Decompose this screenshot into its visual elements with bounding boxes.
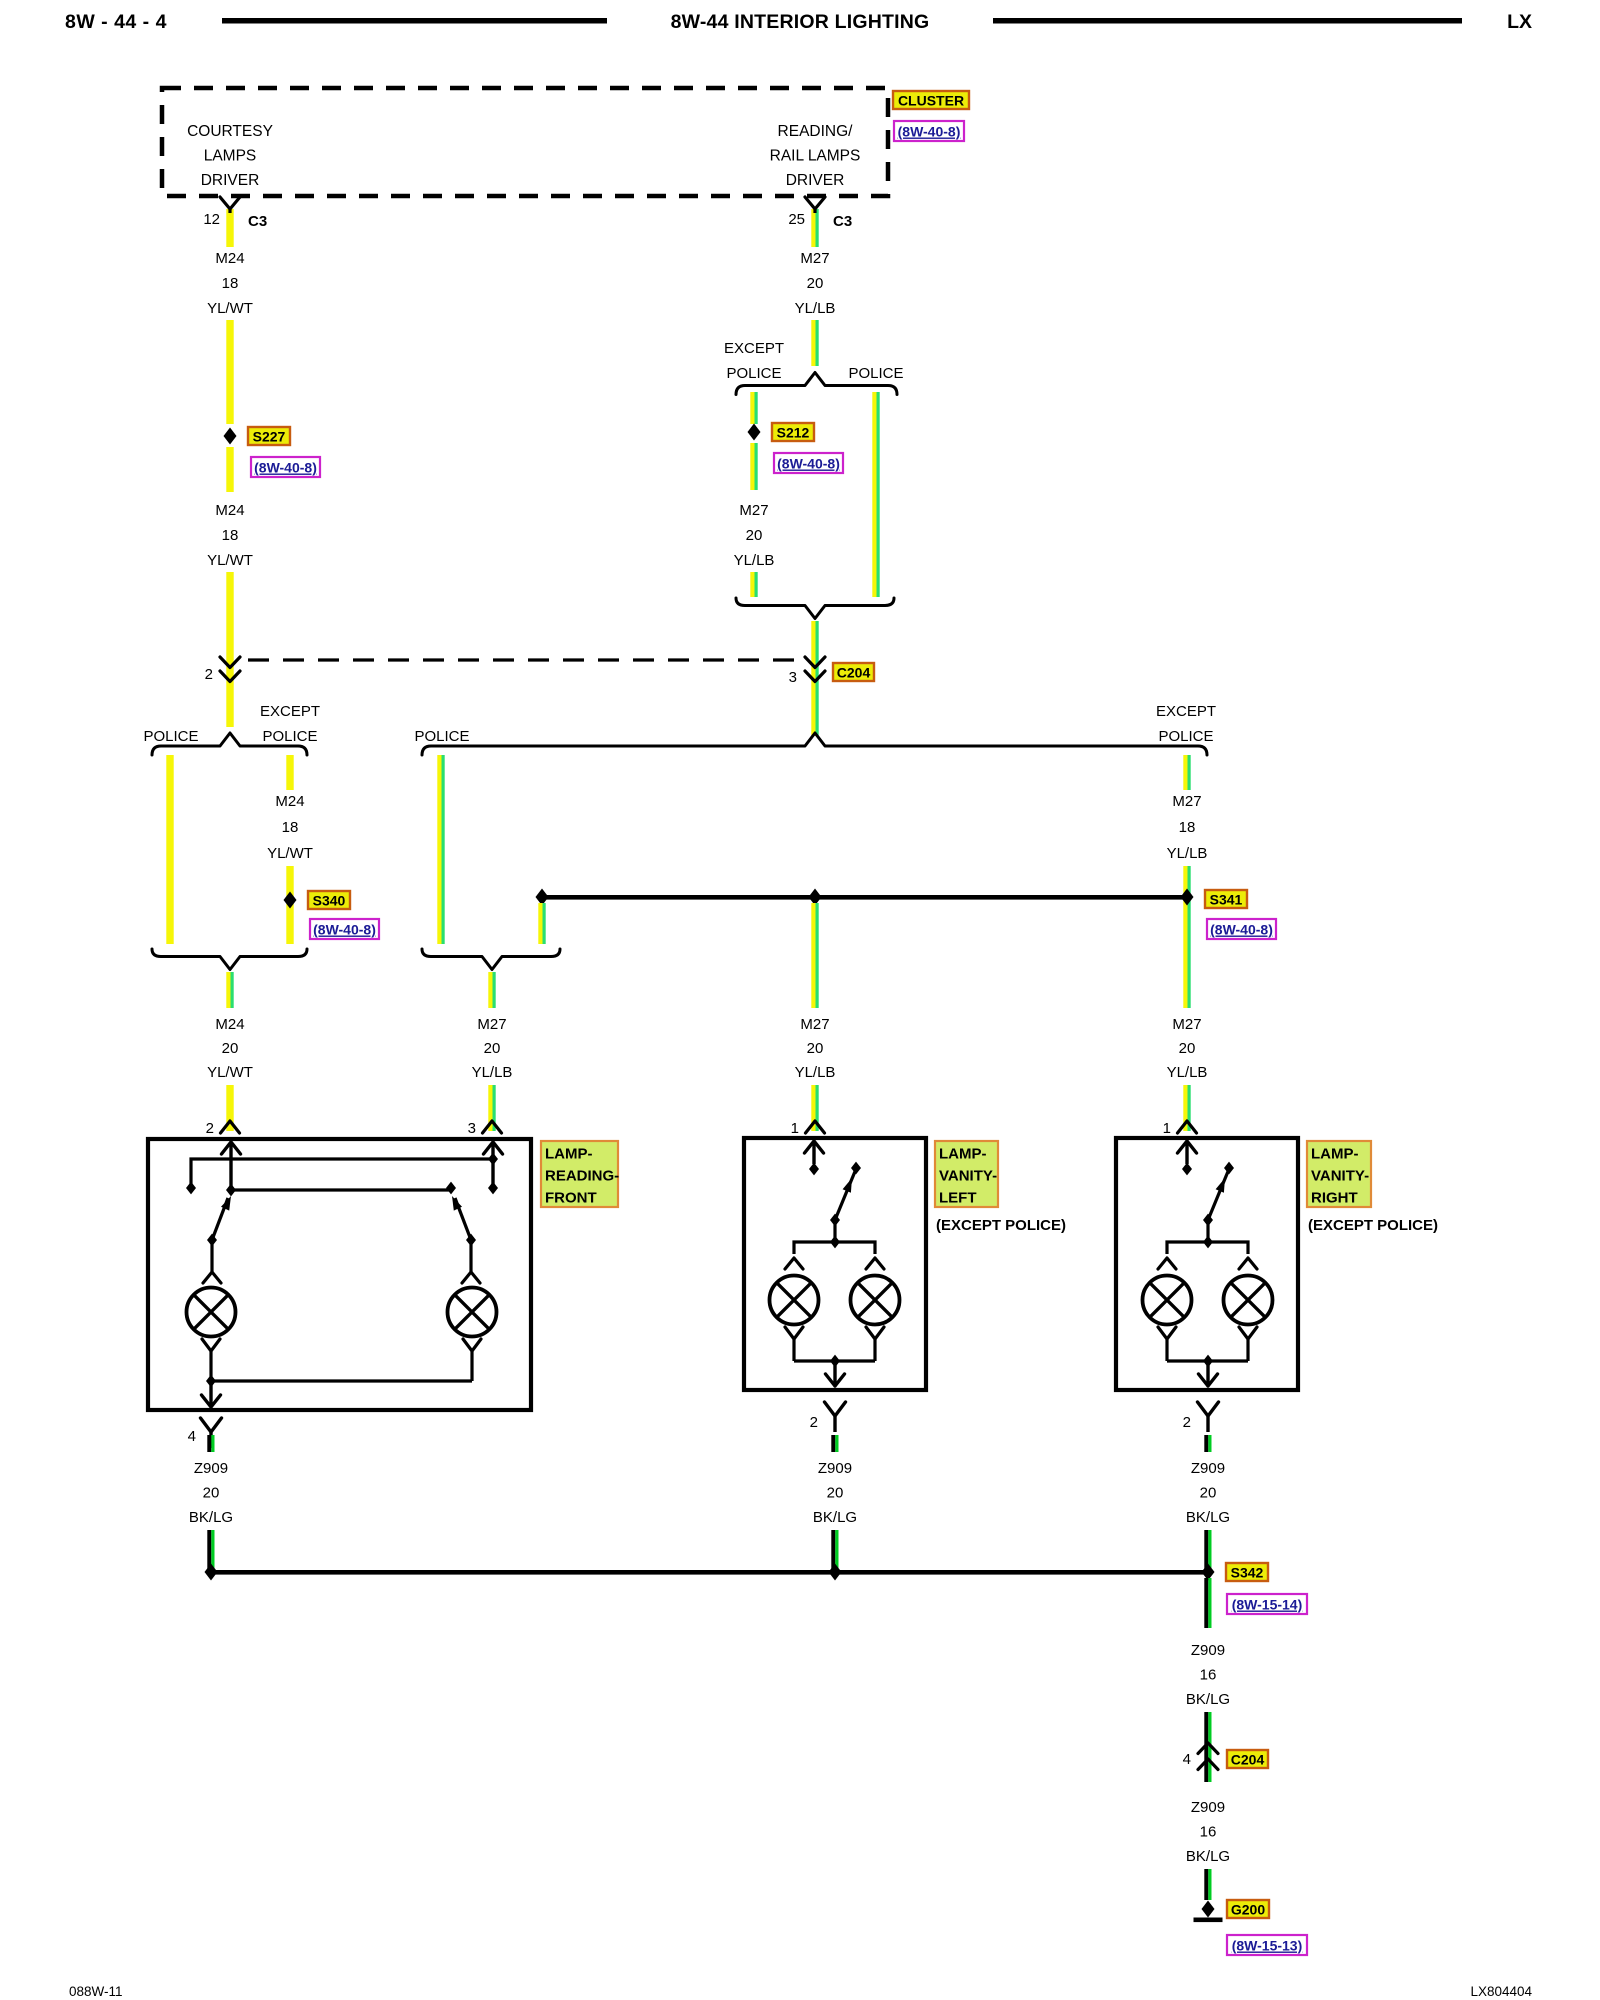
svg-text:20: 20: [807, 1040, 824, 1057]
svg-text:YL/LB: YL/LB: [1167, 1064, 1208, 1081]
svg-text:C3: C3: [248, 213, 267, 230]
svg-text:DRIVER: DRIVER: [786, 172, 845, 189]
svg-text:S341: S341: [1210, 892, 1243, 908]
svg-text:8W-44 INTERIOR LIGHTING: 8W-44 INTERIOR LIGHTING: [671, 11, 930, 33]
svg-text:BK/LG: BK/LG: [813, 1509, 857, 1526]
svg-text:(EXCEPT POLICE): (EXCEPT POLICE): [1308, 1217, 1438, 1234]
svg-text:BK/LG: BK/LG: [189, 1509, 233, 1526]
svg-text:Z909: Z909: [1191, 1642, 1225, 1659]
svg-text:READING-: READING-: [545, 1168, 619, 1185]
svg-text:COURTESY: COURTESY: [187, 123, 273, 140]
svg-text:YL/LB: YL/LB: [472, 1064, 513, 1081]
svg-text:G200: G200: [1231, 1902, 1265, 1918]
svg-text:20: 20: [222, 1040, 239, 1057]
svg-text:C204: C204: [837, 665, 871, 681]
svg-text:(EXCEPT POLICE): (EXCEPT POLICE): [936, 1217, 1066, 1234]
svg-text:Z909: Z909: [194, 1460, 228, 1477]
svg-text:S227: S227: [253, 429, 286, 445]
svg-text:YL/WT: YL/WT: [267, 845, 313, 862]
svg-text:CLUSTER: CLUSTER: [898, 93, 964, 109]
svg-text:(8W-15-13): (8W-15-13): [1232, 1938, 1303, 1954]
svg-text:VANITY-: VANITY-: [939, 1168, 997, 1185]
svg-text:20: 20: [807, 275, 824, 292]
svg-text:EXCEPT: EXCEPT: [724, 340, 784, 357]
svg-text:EXCEPT: EXCEPT: [1156, 703, 1216, 720]
svg-text:POLICE: POLICE: [262, 728, 317, 745]
svg-text:M24: M24: [215, 502, 244, 519]
svg-text:M27: M27: [1172, 1016, 1201, 1033]
svg-text:1: 1: [791, 1120, 799, 1137]
svg-text:18: 18: [222, 527, 239, 544]
svg-text:YL/WT: YL/WT: [207, 1064, 253, 1081]
svg-text:LX: LX: [1507, 11, 1532, 33]
svg-text:M27: M27: [477, 1016, 506, 1033]
svg-text:C3: C3: [833, 213, 852, 230]
svg-text:YL/LB: YL/LB: [795, 1064, 836, 1081]
svg-text:READING/: READING/: [778, 123, 854, 140]
svg-text:2: 2: [205, 666, 213, 683]
svg-text:YL/LB: YL/LB: [1167, 845, 1208, 862]
svg-text:POLICE: POLICE: [848, 365, 903, 382]
svg-text:20: 20: [746, 527, 763, 544]
svg-text:(8W-40-8): (8W-40-8): [898, 124, 961, 140]
svg-text:M24: M24: [275, 793, 304, 810]
svg-text:25: 25: [788, 211, 805, 228]
svg-text:LX804404: LX804404: [1470, 1984, 1532, 1999]
svg-text:18: 18: [222, 275, 239, 292]
svg-text:POLICE: POLICE: [1158, 728, 1213, 745]
svg-text:M27: M27: [800, 250, 829, 267]
svg-text:20: 20: [484, 1040, 501, 1057]
svg-text:DRIVER: DRIVER: [201, 172, 260, 189]
svg-text:Z909: Z909: [1191, 1460, 1225, 1477]
svg-text:EXCEPT: EXCEPT: [260, 703, 320, 720]
svg-text:2: 2: [810, 1414, 818, 1431]
svg-text:3: 3: [789, 669, 797, 686]
svg-text:18: 18: [1179, 819, 1196, 836]
svg-text:FRONT: FRONT: [545, 1190, 597, 1207]
svg-text:LAMP-: LAMP-: [1311, 1146, 1359, 1163]
svg-text:088W-11: 088W-11: [69, 1984, 123, 1999]
svg-text:20: 20: [203, 1485, 220, 1502]
svg-text:(8W-40-8): (8W-40-8): [313, 922, 376, 938]
svg-text:LAMP-: LAMP-: [939, 1146, 987, 1163]
svg-text:20: 20: [827, 1485, 844, 1502]
svg-text:M27: M27: [739, 502, 768, 519]
svg-text:S342: S342: [1231, 1565, 1264, 1581]
svg-text:YL/WT: YL/WT: [207, 552, 253, 569]
svg-text:4: 4: [1183, 1751, 1191, 1768]
svg-text:BK/LG: BK/LG: [1186, 1691, 1230, 1708]
svg-text:12: 12: [203, 211, 220, 228]
svg-text:20: 20: [1179, 1040, 1196, 1057]
svg-text:M27: M27: [1172, 793, 1201, 810]
svg-text:4: 4: [188, 1428, 196, 1445]
svg-text:M24: M24: [215, 1016, 244, 1033]
svg-text:Z909: Z909: [818, 1460, 852, 1477]
svg-text:(8W-15-14): (8W-15-14): [1232, 1597, 1303, 1613]
svg-text:(8W-40-8): (8W-40-8): [1210, 922, 1273, 938]
svg-text:18: 18: [282, 819, 299, 836]
svg-text:LEFT: LEFT: [939, 1190, 977, 1207]
svg-text:POLICE: POLICE: [143, 728, 198, 745]
svg-text:M27: M27: [800, 1016, 829, 1033]
svg-text:BK/LG: BK/LG: [1186, 1509, 1230, 1526]
svg-text:8W - 44 - 4: 8W - 44 - 4: [65, 11, 167, 33]
svg-text:M24: M24: [215, 250, 244, 267]
svg-text:Z909: Z909: [1191, 1799, 1225, 1816]
svg-text:RIGHT: RIGHT: [1311, 1190, 1358, 1207]
svg-text:16: 16: [1200, 1824, 1217, 1841]
svg-text:16: 16: [1200, 1667, 1217, 1684]
svg-text:POLICE: POLICE: [414, 728, 469, 745]
svg-text:1: 1: [1163, 1120, 1171, 1137]
svg-text:LAMP-: LAMP-: [545, 1146, 593, 1163]
svg-text:S340: S340: [313, 893, 346, 909]
svg-text:YL/LB: YL/LB: [795, 300, 836, 317]
svg-text:2: 2: [206, 1120, 214, 1137]
svg-text:3: 3: [468, 1120, 476, 1137]
svg-text:(8W-40-8): (8W-40-8): [777, 456, 840, 472]
svg-text:POLICE: POLICE: [726, 365, 781, 382]
svg-text:S212: S212: [777, 425, 810, 441]
svg-text:BK/LG: BK/LG: [1186, 1848, 1230, 1865]
svg-text:VANITY-: VANITY-: [1311, 1168, 1369, 1185]
svg-text:YL/LB: YL/LB: [734, 552, 775, 569]
svg-text:2: 2: [1183, 1414, 1191, 1431]
svg-text:(8W-40-8): (8W-40-8): [254, 460, 317, 476]
svg-text:RAIL LAMPS: RAIL LAMPS: [770, 148, 861, 165]
svg-text:YL/WT: YL/WT: [207, 300, 253, 317]
svg-text:20: 20: [1200, 1485, 1217, 1502]
svg-text:C204: C204: [1231, 1752, 1265, 1768]
svg-text:LAMPS: LAMPS: [204, 148, 257, 165]
